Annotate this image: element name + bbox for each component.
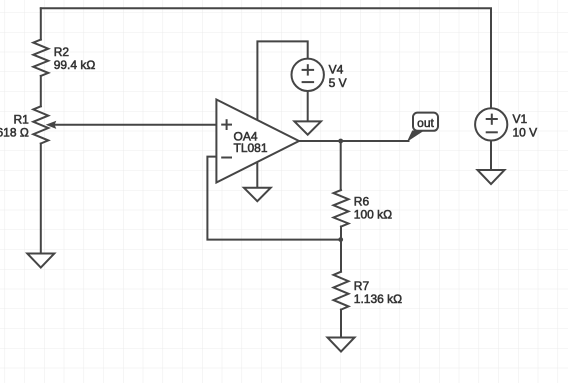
svg-text:1.136 kΩ: 1.136 kΩ: [354, 292, 402, 306]
svg-text:10 V: 10 V: [513, 126, 538, 140]
svg-text:TL081: TL081: [234, 141, 268, 155]
svg-text:R2: R2: [54, 45, 70, 59]
svg-text:618 Ω: 618 Ω: [0, 126, 29, 140]
svg-text:R1: R1: [13, 113, 29, 127]
svg-text:5 V: 5 V: [329, 76, 347, 90]
svg-text:out: out: [417, 116, 434, 130]
svg-text:V1: V1: [513, 112, 528, 126]
svg-text:V4: V4: [329, 62, 344, 76]
svg-text:99.4 kΩ: 99.4 kΩ: [54, 58, 96, 72]
svg-text:100 kΩ: 100 kΩ: [354, 207, 392, 221]
svg-text:R7: R7: [354, 279, 370, 293]
